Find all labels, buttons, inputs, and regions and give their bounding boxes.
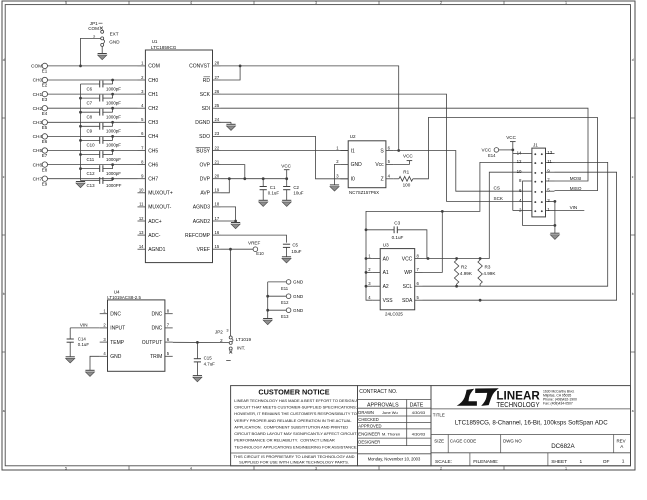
J1 pin 5 <box>546 190 555 192</box>
node E13 GND <box>268 309 287 311</box>
size cage dwg row <box>431 434 631 436</box>
svg-text:VCC: VCC <box>482 147 492 152</box>
title band <box>431 408 631 410</box>
wire AGND3 join AGND2 <box>221 207 236 221</box>
svg-text:E8: E8 <box>42 167 48 172</box>
node E12 GND <box>268 295 287 297</box>
svg-text:16: 16 <box>215 230 220 235</box>
svg-text:BUSY: BUSY <box>196 148 210 154</box>
approvals block frame <box>358 386 432 466</box>
U3 pin 7 WP <box>415 271 423 273</box>
svg-text:100: 100 <box>403 182 411 187</box>
J1 pin 14 <box>523 153 532 155</box>
J1 pin 6 <box>523 190 532 192</box>
svg-text:24: 24 <box>215 117 220 122</box>
border zone ticks bottom <box>128 466 130 470</box>
svg-text:COM: COM <box>88 26 99 31</box>
border zone ticks right <box>631 117 636 119</box>
svg-text:1000pF: 1000pF <box>106 143 121 148</box>
svg-text:SDO: SDO <box>199 134 210 140</box>
capacitor C3 0.1uF <box>366 229 394 231</box>
capacitor C12 <box>99 165 101 172</box>
svg-text:VSS: VSS <box>383 298 394 304</box>
svg-text:SHEET: SHEET <box>551 459 567 465</box>
svg-text:E2: E2 <box>42 83 48 88</box>
svg-text:SUPPLIED FOR USE WITH LINEAR T: SUPPLIED FOR USE WITH LINEAR TECHNOLOGY … <box>239 459 349 464</box>
U1 pin 23 SDO <box>213 135 221 137</box>
svg-text:APPROVALS: APPROVALS <box>367 403 399 409</box>
U1 pin 18 AGND3 <box>213 206 221 208</box>
wire CH4 E6 to U1 <box>47 135 137 137</box>
U1 pin 21 OVP <box>213 164 221 166</box>
svg-text:27: 27 <box>215 75 220 80</box>
U4 pin 2 INPUT <box>100 327 108 329</box>
U3 pin 6 SCL <box>415 285 423 287</box>
svg-text:CH4: CH4 <box>148 134 158 140</box>
ground U2 GND <box>330 184 339 186</box>
wire SDI net to MOSI <box>221 108 589 181</box>
svg-text:GND: GND <box>293 308 304 313</box>
mux U2 NC7SZ157P6X body <box>348 141 386 188</box>
svg-text:MOSI: MOSI <box>570 176 582 181</box>
ground J1 <box>550 232 559 234</box>
svg-text:AGND3: AGND3 <box>193 205 210 211</box>
svg-text:23: 23 <box>215 131 220 136</box>
U1 pin 25 SDI <box>213 107 221 109</box>
U1 pin 8 CH6 <box>138 164 146 166</box>
svg-text:I0: I0 <box>351 177 355 183</box>
U1 pin 7 CH5 <box>138 150 146 152</box>
U1 pin 1 COM <box>138 65 146 67</box>
svg-text:U1: U1 <box>152 39 158 44</box>
wire R1 to MISO <box>413 118 598 191</box>
svg-text:10uF: 10uF <box>291 249 301 254</box>
svg-text:Vcc: Vcc <box>375 162 384 168</box>
svg-text:SDA: SDA <box>402 298 413 304</box>
svg-text:ADC+: ADC+ <box>148 219 162 225</box>
resistor R3 4.99K <box>478 260 482 284</box>
U1 pin 27 RD <box>213 79 221 81</box>
svg-text:REV: REV <box>617 438 626 443</box>
wire DGND stub <box>213 121 232 123</box>
svg-text:CUSTOMER NOTICE: CUSTOMER NOTICE <box>258 387 329 396</box>
svg-text:I1: I1 <box>351 148 355 154</box>
U1 pin 6 CH4 <box>138 135 146 137</box>
svg-text:1: 1 <box>622 458 625 464</box>
svg-text:VIN: VIN <box>570 205 578 210</box>
svg-text:2: 2 <box>440 1 442 5</box>
wire AVP join DVP <box>221 179 230 193</box>
ground U4 GND <box>85 369 94 371</box>
svg-text:C13: C13 <box>87 183 96 188</box>
capacitor C1 0.1uF <box>262 179 264 187</box>
svg-text:VCC: VCC <box>506 135 516 140</box>
ground DGND <box>226 123 235 125</box>
U2 pin 6 S <box>386 150 394 152</box>
svg-text:C15: C15 <box>204 355 213 360</box>
svg-text:VCC: VCC <box>403 154 413 159</box>
ground of capacitor bus <box>76 181 85 183</box>
wire CH6 E8 to U1 <box>47 164 137 166</box>
ground JP1 <box>98 53 107 55</box>
svg-text:C5: C5 <box>292 243 298 248</box>
svg-text:DC682A: DC682A <box>551 443 575 450</box>
J1 pin 12 <box>523 161 532 163</box>
svg-text:0.1uF: 0.1uF <box>268 191 280 196</box>
wire CH1 E3 to U1 <box>47 93 137 95</box>
wire J1 pin8 ground bracket <box>523 181 555 225</box>
svg-text:3: 3 <box>226 328 228 332</box>
svg-text:GND: GND <box>351 162 363 168</box>
svg-text:b: b <box>3 292 5 296</box>
svg-text:5: 5 <box>65 466 67 470</box>
wire AGND2 to ground <box>221 220 236 222</box>
ground C2 <box>282 199 291 201</box>
svg-text:AVP: AVP <box>200 191 210 197</box>
ground C14 <box>66 356 75 358</box>
wire VREF down to JP2 <box>230 249 232 336</box>
svg-text:J1: J1 <box>533 143 538 148</box>
J1 pin 9 <box>546 171 555 173</box>
svg-text:E5: E5 <box>42 125 48 130</box>
svg-text:OUTPUT: OUTPUT <box>142 340 163 346</box>
U4 pin 6 OUTPUT <box>165 341 173 343</box>
svg-text:MUXOUT+: MUXOUT+ <box>148 191 173 197</box>
wire REFCOMP to C5 <box>221 235 287 243</box>
J1 pin 3 <box>546 200 555 202</box>
svg-text:C9: C9 <box>87 129 93 134</box>
svg-text:25: 25 <box>215 103 220 108</box>
wire U3 address bus to J1 pin12 net <box>366 162 523 300</box>
J1 pin 11 <box>546 161 555 163</box>
J1 pin 1 <box>546 210 555 212</box>
svg-text:ENGINEER: ENGINEER <box>358 432 380 437</box>
capacitor C5 10uF <box>283 243 290 245</box>
connector E6 CH4 <box>42 134 47 139</box>
wire COM E1 to U1 <box>47 65 137 67</box>
op-amp U1 LTC1859CG body <box>145 50 212 263</box>
capacitor C8 <box>99 109 101 116</box>
U1 pin 4 CH2 <box>138 107 146 109</box>
capacitor C2 10uF <box>286 179 288 187</box>
svg-text:CONVST: CONVST <box>189 64 210 70</box>
svg-text:GND: GND <box>293 294 304 299</box>
svg-text:CH7: CH7 <box>148 177 158 183</box>
J1 pin 13 <box>546 153 555 155</box>
svg-text:3: 3 <box>315 1 317 5</box>
wire CH0 E2 to U1 <box>47 79 137 81</box>
U1 pin 5 CH3 <box>138 121 146 123</box>
svg-text:DGND: DGND <box>195 120 210 126</box>
svg-text:1000pF: 1000pF <box>106 171 121 176</box>
capacitor C7 <box>99 95 101 102</box>
U1 pin 24 DGND <box>213 121 221 123</box>
svg-text:CH0: CH0 <box>148 78 158 84</box>
U4 pin 5 TRIM <box>165 355 173 357</box>
svg-text:C6: C6 <box>87 86 93 91</box>
svg-text:SCALE:: SCALE: <box>435 459 452 465</box>
svg-text:5: 5 <box>65 1 67 5</box>
wire U4 OUTPUT to JP2 pin2 <box>173 341 230 343</box>
svg-text:0.1uF: 0.1uF <box>392 235 404 240</box>
svg-text:Z: Z <box>381 177 384 183</box>
svg-text:U3: U3 <box>383 243 389 248</box>
svg-text:22: 22 <box>215 145 220 150</box>
power VCC at U2 pin5 <box>394 161 410 165</box>
wire RD join CONVST <box>221 66 241 80</box>
J1 pin 7 <box>546 180 555 182</box>
svg-text:E12: E12 <box>281 300 289 305</box>
svg-text:VREF: VREF <box>197 247 210 253</box>
svg-text:NC7SZ157P6X: NC7SZ157P6X <box>349 190 379 195</box>
svg-text:LT1019: LT1019 <box>236 337 252 342</box>
svg-text:CH2: CH2 <box>148 106 158 112</box>
svg-text:LT1019ACS8-2.5: LT1019ACS8-2.5 <box>107 295 141 300</box>
U1 pin 2 CH0 <box>138 79 146 81</box>
border zone ticks left <box>2 117 5 119</box>
svg-text:E9: E9 <box>42 181 48 186</box>
svg-text:3: 3 <box>315 466 317 470</box>
U3 pin 4 VSS <box>372 299 380 301</box>
customer notice divider <box>231 452 358 454</box>
wire DVP net <box>221 178 287 180</box>
svg-text:Fax: (408)434-0507: Fax: (408)434-0507 <box>543 402 573 406</box>
capacitor C10 <box>99 137 101 144</box>
svg-text:A1: A1 <box>383 270 389 276</box>
svg-text:A0: A0 <box>383 256 389 262</box>
wire CH7 E9 to U1 <box>47 178 137 180</box>
resistor R1 100 <box>394 178 399 180</box>
svg-text:HOWEVER, IT REMAINS THE CUSTOM: HOWEVER, IT REMAINS THE CUSTOMER'S RESPO… <box>234 411 357 416</box>
svg-text:E10: E10 <box>256 251 264 256</box>
svg-text:M. Thoren: M. Thoren <box>382 432 400 437</box>
svg-text:E11: E11 <box>281 286 289 291</box>
wire J1 ground stem <box>554 225 556 233</box>
svg-text:DNC: DNC <box>151 312 162 318</box>
svg-text:CHECKED: CHECKED <box>358 417 378 422</box>
svg-text:4.7uF: 4.7uF <box>204 361 216 366</box>
svg-text:VIN: VIN <box>80 322 88 327</box>
svg-text:R3: R3 <box>485 264 491 269</box>
border zone ticks top <box>128 1 130 5</box>
svg-text:C12: C12 <box>87 171 96 176</box>
svg-text:LINEAR TECHNOLOGY HAS MADE A B: LINEAR TECHNOLOGY HAS MADE A BEST EFFORT… <box>234 398 358 403</box>
wire U3 VCC line <box>423 172 523 258</box>
ground C5 <box>282 256 291 258</box>
capacitor C13 <box>99 177 101 184</box>
wire U3 WP up to J1 net <box>423 211 443 272</box>
svg-text:19: 19 <box>215 188 220 193</box>
svg-text:DNC: DNC <box>110 312 121 318</box>
regulator U4 LT1019ACS8-2.5 body <box>108 300 165 371</box>
svg-text:JP1: JP1 <box>90 21 98 26</box>
svg-text:VREF: VREF <box>248 240 260 245</box>
U1 pin 19 AVP <box>213 192 221 194</box>
capacitor ground bus <box>80 84 82 181</box>
svg-text:C11: C11 <box>87 157 95 162</box>
U3 pin 8 VCC <box>415 258 423 260</box>
svg-text:TECHNOLOGY APPLICATIONS ENGINE: TECHNOLOGY APPLICATIONS ENGINEERING FOR … <box>234 444 357 449</box>
wire CH2 E4 to U1 <box>47 107 137 109</box>
svg-text:R2: R2 <box>461 264 467 269</box>
U4 pin 7 DNC <box>165 327 173 329</box>
svg-text:C2: C2 <box>293 185 299 190</box>
svg-text:GND: GND <box>293 280 304 285</box>
U3 pin 2 A1 <box>372 271 380 273</box>
svg-text:APPLICATION. COMPONENT SUBSTI: APPLICATION. COMPONENT SUBSTITUTION AND … <box>234 424 348 429</box>
svg-text:14: 14 <box>517 150 522 155</box>
svg-text:U2: U2 <box>350 134 356 139</box>
svg-text:13: 13 <box>139 230 144 235</box>
svg-text:C7: C7 <box>87 100 93 105</box>
U1 pin 12 ADC+ <box>138 220 146 222</box>
svg-text:10: 10 <box>139 188 144 193</box>
svg-text:E14: E14 <box>488 153 496 158</box>
svg-text:C3: C3 <box>394 220 400 225</box>
wire VIN to U4 INPUT <box>70 327 100 329</box>
svg-text:4/30/03: 4/30/03 <box>412 432 426 437</box>
svg-text:4: 4 <box>190 1 192 5</box>
U2 pin 2 GND <box>340 163 348 165</box>
svg-text:24LC025: 24LC025 <box>385 311 403 316</box>
svg-text:E6: E6 <box>42 139 48 144</box>
U1 pin 10 MUXOUT+ <box>138 192 146 194</box>
svg-text:a: a <box>632 409 634 413</box>
ground C1 <box>259 199 268 201</box>
connector E7 CH5 <box>42 148 47 153</box>
svg-text:INT.: INT. <box>237 346 245 351</box>
svg-text:SCK: SCK <box>494 196 504 201</box>
U2 pin 4 Z <box>386 178 394 180</box>
connector E8 CH6 <box>42 162 47 167</box>
U1 pin 9 CH7 <box>138 178 146 180</box>
svg-text:VERIFY PROPER AND RELIABLE OPE: VERIFY PROPER AND RELIABLE OPERATION IN … <box>234 418 352 423</box>
svg-text:SIZE: SIZE <box>434 438 444 443</box>
svg-text:4/30/03: 4/30/03 <box>412 410 426 415</box>
svg-text:4: 4 <box>190 466 192 470</box>
connector E1 COM <box>42 63 47 68</box>
connector E5 CH3 <box>42 120 47 125</box>
Linear Technology logo <box>457 388 499 406</box>
wire CH5 E7 to U1 <box>47 150 137 152</box>
wire OVP join DVP <box>221 165 245 179</box>
svg-text:1000pF: 1000pF <box>106 129 121 134</box>
wire CH3 E5 to U1 <box>47 121 137 123</box>
svg-text:1000pF: 1000pF <box>106 86 121 91</box>
svg-text:LTC1859CG, 8-Channel, 16-Bit,: LTC1859CG, 8-Channel, 16-Bit, 100ksps So… <box>455 420 608 427</box>
svg-text:RD: RD <box>203 78 211 84</box>
svg-text:AGND2: AGND2 <box>193 219 210 225</box>
svg-text:1000pF: 1000pF <box>106 157 121 162</box>
J1 pin 8 <box>523 180 532 182</box>
svg-text:June Wu: June Wu <box>382 410 398 415</box>
svg-text:REFCOMP: REFCOMP <box>185 233 211 239</box>
svg-text:1: 1 <box>580 459 583 465</box>
wire VREF to E10 <box>221 248 254 250</box>
svg-text:DNC: DNC <box>151 326 162 332</box>
capacitor C6 <box>99 81 101 88</box>
svg-text:APPROVED: APPROVED <box>358 423 381 428</box>
svg-text:E1: E1 <box>42 69 48 74</box>
U1 pin 20 DVP <box>213 178 221 180</box>
wire SCL to J1 pin11 <box>423 162 608 286</box>
svg-text:13: 13 <box>547 150 552 155</box>
U1 pin 3 CH1 <box>138 93 146 95</box>
U3 pin 3 A2 <box>372 285 380 287</box>
svg-text:CS: CS <box>494 186 500 191</box>
svg-text:GND: GND <box>110 354 122 360</box>
U1 pin 17 AGND2 <box>213 220 221 222</box>
svg-text:b: b <box>632 292 634 296</box>
capacitor C15 4.7uF <box>196 342 198 358</box>
svg-text:DWG NO: DWG NO <box>503 438 522 443</box>
svg-text:TITLE: TITLE <box>433 412 445 417</box>
svg-text:CH5: CH5 <box>148 148 158 154</box>
svg-text:14: 14 <box>139 244 144 249</box>
scale row <box>431 452 631 454</box>
svg-text:JP2: JP2 <box>215 329 223 334</box>
svg-text:U4: U4 <box>114 290 120 295</box>
wire VCC to J1 pin14 and pin2 <box>512 142 514 211</box>
wire SCK net <box>221 94 523 201</box>
U4 pin 4 GND <box>100 355 108 357</box>
wire gnd posts bus <box>267 282 269 319</box>
svg-text:12: 12 <box>517 159 522 164</box>
U1 pin 26 SCK <box>213 93 221 95</box>
svg-text:E3: E3 <box>42 97 48 102</box>
J1 pin 4 <box>523 200 532 202</box>
svg-text:18: 18 <box>215 202 220 207</box>
svg-text:C8: C8 <box>87 115 93 120</box>
wire SDO to U2 I0 <box>221 136 349 178</box>
svg-text:TECHNOLOGY: TECHNOLOGY <box>496 400 539 409</box>
connector E2 CH0 <box>42 77 47 82</box>
U4 pin 8 DNC <box>165 313 173 315</box>
svg-text:E7: E7 <box>42 153 48 158</box>
svg-text:DRAWN: DRAWN <box>358 410 374 415</box>
customer notice box <box>231 386 358 466</box>
U1 pin 11 MUXOUT- <box>138 206 146 208</box>
resistor R2 4.99K <box>454 260 458 284</box>
title block frame <box>431 386 631 466</box>
svg-text:FILENAME:: FILENAME: <box>473 459 498 465</box>
svg-text:OVP: OVP <box>199 162 210 168</box>
svg-text:1000pF: 1000pF <box>106 100 121 105</box>
svg-text:SCL: SCL <box>403 284 413 290</box>
connector J1 body <box>532 148 546 217</box>
svg-text:a: a <box>3 409 5 413</box>
svg-text:SDI: SDI <box>202 106 210 112</box>
wire SDA to J1 pin9 <box>423 172 617 300</box>
svg-text:A2: A2 <box>383 284 389 290</box>
svg-text:11: 11 <box>139 202 144 207</box>
U2 pin 1 I1 <box>340 150 348 152</box>
U4 pin 1 DNC <box>100 313 108 315</box>
J1 pin 10 <box>523 171 532 173</box>
U3 pin 5 SDA <box>415 299 423 301</box>
svg-text:4.99K: 4.99K <box>483 271 496 276</box>
svg-text:20: 20 <box>215 174 220 179</box>
svg-text:Monday, November 10, 2003: Monday, November 10, 2003 <box>368 457 421 462</box>
capacitor C9 <box>99 123 101 130</box>
U1 pin 22 BUSY <box>213 150 221 152</box>
wire VIN from J1 pin1 <box>555 210 585 212</box>
svg-text:C1: C1 <box>270 185 276 190</box>
svg-text:GND: GND <box>109 40 120 45</box>
wire BUSY to U2 I1 <box>221 150 349 152</box>
svg-text:C10: C10 <box>87 143 96 148</box>
svg-text:10uF: 10uF <box>293 191 303 196</box>
